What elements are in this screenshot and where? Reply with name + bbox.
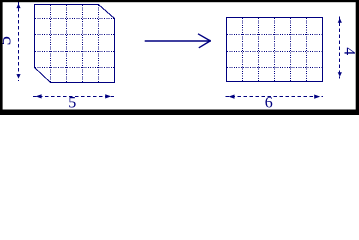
svg-text:4: 4 <box>341 47 358 55</box>
svg-text:6: 6 <box>265 94 273 111</box>
svg-text:5: 5 <box>68 95 76 112</box>
